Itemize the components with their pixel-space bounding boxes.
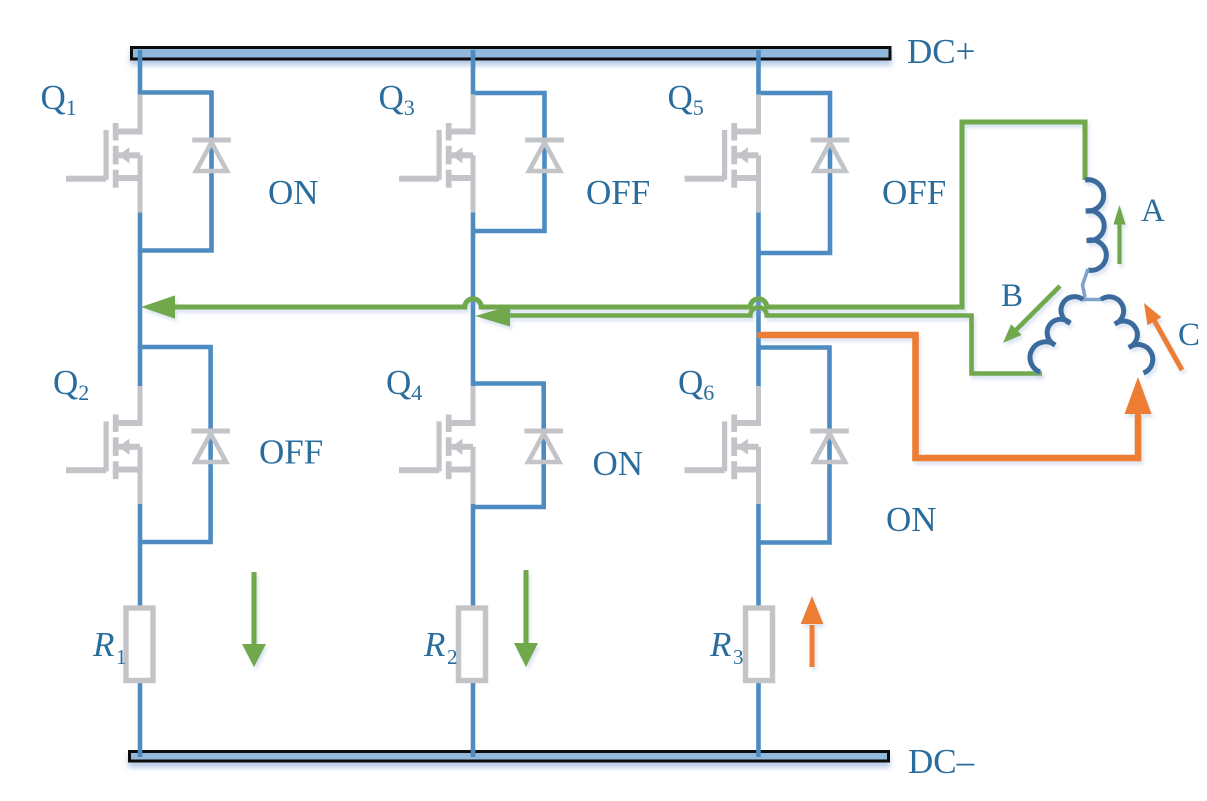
winding coil B bbox=[1030, 297, 1083, 372]
DC- bus bar bbox=[130, 752, 889, 762]
winding coil C bbox=[1101, 297, 1153, 373]
green arrow phase B direction bbox=[1003, 286, 1060, 343]
wire Q5 diode loop bbox=[759, 93, 831, 253]
diode of Q3 bbox=[525, 138, 564, 172]
green current path phase B with jump bbox=[475, 306, 1042, 374]
orange up arrow near R3 bbox=[801, 596, 824, 667]
svg-text:Q5: Q5 bbox=[668, 78, 704, 120]
resistor R3 bbox=[746, 608, 773, 681]
svg-text:3: 3 bbox=[733, 645, 744, 669]
svg-text:B: B bbox=[1001, 278, 1023, 314]
diode of Q5 bbox=[811, 138, 850, 172]
wire leg 1 segments bbox=[138, 50, 143, 757]
coil A lead to neutral bbox=[1083, 269, 1089, 298]
resistor R2 bbox=[459, 608, 486, 681]
wire Q2 diode loop bbox=[140, 347, 211, 542]
svg-text:Q3: Q3 bbox=[379, 78, 415, 120]
wire leg 2 segments bbox=[471, 50, 476, 757]
svg-text:OFF: OFF bbox=[882, 173, 946, 212]
svg-text:ON: ON bbox=[886, 500, 937, 539]
transistor Q6 bbox=[685, 386, 762, 504]
diode of Q2 bbox=[191, 429, 230, 463]
wire Q6 diode loop bbox=[759, 348, 830, 543]
wire Q3 diode loop bbox=[473, 93, 545, 231]
svg-text:ON: ON bbox=[268, 173, 319, 212]
transistor Q4 bbox=[399, 386, 476, 504]
svg-text:Q6: Q6 bbox=[678, 363, 714, 405]
green arrow phase A direction bbox=[1113, 205, 1125, 264]
green current path phase A with jumps bbox=[141, 122, 1085, 319]
svg-text:C: C bbox=[1178, 317, 1200, 353]
svg-text:R: R bbox=[709, 625, 731, 664]
orange arrow phase C direction bbox=[1144, 303, 1182, 370]
svg-text:OFF: OFF bbox=[586, 173, 650, 212]
svg-text:OFF: OFF bbox=[259, 433, 323, 472]
svg-text:Q1: Q1 bbox=[41, 78, 77, 120]
transistor Q2 bbox=[66, 386, 143, 504]
neutral node segment bbox=[1082, 298, 1102, 302]
diode of Q6 bbox=[810, 429, 849, 463]
resistor R1 bbox=[126, 608, 153, 681]
svg-text:Q4: Q4 bbox=[386, 363, 422, 405]
diode of Q1 bbox=[192, 138, 231, 172]
svg-text:R: R bbox=[92, 625, 114, 664]
wire Q4 diode loop bbox=[473, 384, 544, 508]
DC+ bus bar bbox=[132, 48, 891, 60]
wire leg 3 segments bbox=[756, 50, 761, 757]
wire Q1 diode loop bbox=[140, 93, 212, 251]
green down arrow near R1 bbox=[242, 572, 266, 667]
svg-text:DC–: DC– bbox=[908, 742, 975, 781]
svg-text:2: 2 bbox=[447, 645, 458, 669]
svg-text:ON: ON bbox=[593, 444, 644, 483]
green down arrow near R2 bbox=[514, 570, 538, 667]
winding coil A bbox=[1085, 180, 1106, 271]
svg-text:1: 1 bbox=[116, 645, 127, 669]
svg-text:Q2: Q2 bbox=[53, 363, 89, 405]
svg-text:R: R bbox=[423, 625, 445, 664]
transistor Q5 bbox=[685, 95, 762, 213]
svg-text:DC+: DC+ bbox=[907, 32, 975, 71]
transistor Q1 bbox=[66, 95, 143, 213]
orange current path phase C bbox=[760, 335, 1152, 458]
diode of Q4 bbox=[524, 429, 563, 463]
svg-text:A: A bbox=[1141, 193, 1165, 229]
transistor Q3 bbox=[399, 95, 476, 213]
